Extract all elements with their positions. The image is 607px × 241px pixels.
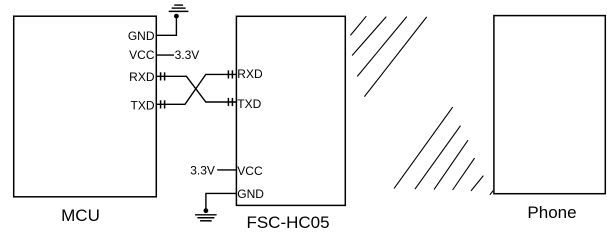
svg-text:GND: GND xyxy=(237,187,264,201)
svg-text:GND: GND xyxy=(128,29,155,43)
wire MCU VCC pin to 3.3V xyxy=(156,54,174,56)
wireless link hatch, lower group line 6 xyxy=(490,191,493,195)
wireless link hatch, upper group line 2 xyxy=(352,17,386,56)
wireless link hatch, lower group line 5 xyxy=(471,176,483,191)
connector ticks MCU TXD pin xyxy=(161,100,165,108)
wireless link hatch, lower group line 1 xyxy=(394,107,453,188)
wire MCU GND pin to ground xyxy=(156,16,176,35)
connector ticks HC05 TXD pin xyxy=(228,98,232,106)
wireless link hatch, upper group line 4 xyxy=(364,17,426,97)
svg-text:TXD: TXD xyxy=(237,97,261,111)
wireless link hatch, upper group line 1 xyxy=(350,16,366,35)
wire 3.3V to HC05 VCC pin xyxy=(217,169,236,171)
ground (top, inverted earth symbol at MCU GND) xyxy=(169,5,189,18)
wire MCU TXD to HC05 RXD (crossover) xyxy=(156,74,236,104)
svg-text:RXD: RXD xyxy=(129,70,155,84)
wire MCU RXD to HC05 TXD (crossover) xyxy=(156,76,236,102)
svg-text:VCC: VCC xyxy=(129,48,155,62)
connector ticks MCU RXD pin xyxy=(161,72,165,80)
wire HC05 GND pin to ground xyxy=(206,193,237,210)
wireless link hatch, upper group line 3 xyxy=(357,17,407,77)
block U1 MCU xyxy=(14,16,157,197)
ground (bottom, earth symbol at HC05 GND) xyxy=(195,208,217,221)
svg-text:3.3V: 3.3V xyxy=(190,164,215,178)
wireless link hatch, lower group line 3 xyxy=(434,140,468,189)
svg-text:VCC: VCC xyxy=(237,164,263,178)
svg-text:RXD: RXD xyxy=(237,67,263,81)
svg-text:TXD: TXD xyxy=(131,99,155,113)
connector ticks HC05 RXD pin xyxy=(228,70,232,78)
wireless link hatch, lower group line 2 xyxy=(415,126,461,190)
block Phone xyxy=(494,16,605,194)
svg-text:3.3V: 3.3V xyxy=(175,48,200,62)
svg-text:MCU: MCU xyxy=(61,206,100,225)
svg-text:FSC-HC05: FSC-HC05 xyxy=(246,213,329,232)
wireless link hatch, lower group line 4 xyxy=(453,158,475,190)
svg-text:Phone: Phone xyxy=(527,203,576,222)
block U2 FSC-HC05 xyxy=(236,16,345,205)
